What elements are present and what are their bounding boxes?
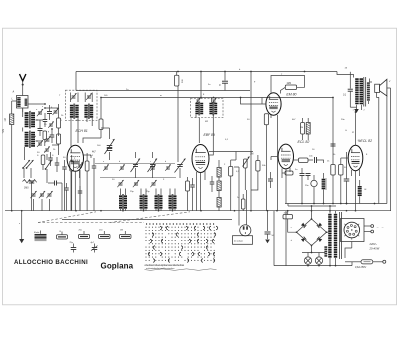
label R1	[4, 118, 7, 121]
coil L3 RF	[25, 131, 35, 149]
capacitor C20 trimmer	[117, 180, 123, 187]
wire coil taps	[23, 108, 38, 160]
wire HT rail	[288, 204, 336, 207]
connector J1 pickup	[240, 225, 251, 236]
capacitor C39	[55, 157, 60, 172]
svg-text:ALLOCCHIO BACCHINI: ALLOCCHIO BACCHINI	[14, 259, 88, 266]
coil L6 osc	[155, 194, 163, 210]
transformer IF1 shield	[66, 90, 98, 120]
capacitor C13 trimmer	[77, 162, 83, 211]
label small letters	[35, 106, 62, 138]
wire V3 cathode	[271, 115, 278, 211]
resistor R17	[282, 171, 293, 175]
label speaker	[388, 81, 391, 83]
capacitor CV3 tuning	[148, 152, 158, 178]
svg-text:1M: 1M	[250, 153, 253, 156]
coil L8	[322, 173, 326, 204]
band switch S1	[22, 160, 33, 169]
resistor R7 grid	[83, 98, 103, 144]
wire AVC bus	[100, 97, 333, 99]
wire box out	[28, 103, 59, 110]
svg-text:d: d	[165, 161, 166, 163]
loudspeaker LS1	[375, 79, 387, 96]
label anode A	[351, 131, 354, 134]
wire bridge top	[311, 206, 313, 219]
svg-text:½ECL 82: ½ECL 82	[358, 139, 373, 143]
capacitor C41	[64, 183, 69, 211]
resistor R21	[306, 118, 310, 140]
tube V5 ECL82 pentode	[348, 145, 363, 170]
capacitor C34	[43, 113, 48, 127]
svg-text:A: A	[12, 90, 15, 94]
resistor R9	[217, 160, 221, 177]
wire T1 leads	[353, 105, 366, 112]
wire screen feed	[346, 152, 348, 204]
tube V3 EM80	[266, 93, 281, 115]
transformer T1 core	[364, 77, 366, 107]
wire vertical right return	[390, 88, 392, 211]
resistor R5	[70, 155, 74, 211]
capacitor C21 trimmer	[133, 180, 139, 187]
label tone parts	[295, 161, 367, 192]
mechanical link dashed	[38, 212, 190, 223]
legend icon resistor a	[57, 231, 68, 239]
capacitor CV2 tuning	[131, 152, 141, 178]
wire gang link	[101, 128, 110, 132]
resistor R19	[339, 158, 343, 204]
socket X1 rectifier	[341, 219, 365, 242]
wire screen bus	[76, 72, 250, 91]
wire IF1 internal	[71, 93, 93, 103]
svg-text:220V~: 220V~	[369, 242, 378, 246]
rectifier bridge B1	[296, 218, 328, 246]
wire antenna to coil	[12, 101, 17, 108]
capacitor IF2 trimmers	[196, 98, 217, 104]
wire V5 anode	[355, 111, 357, 145]
label cathode parts	[63, 155, 94, 160]
label ECH 81	[76, 129, 88, 133]
wire vertical anode feed	[250, 72, 252, 211]
wire front-end links	[36, 107, 59, 145]
label mains text	[369, 242, 380, 251]
svg-text:g: g	[48, 131, 49, 133]
capacitor C35 trimmer	[48, 121, 54, 127]
svg-text:cdeohasnmtkeruioplkacstveniokc: cdeohasnmtkeruioplkacstveniokcdeohas	[145, 264, 185, 267]
coil IF2b	[209, 102, 217, 116]
svg-text:EM 80: EM 80	[286, 92, 296, 96]
wire EM80 column	[261, 98, 263, 105]
svg-text:25÷45W: 25÷45W	[369, 247, 380, 251]
resistor R24	[237, 194, 245, 211]
svg-text:→: →	[381, 225, 384, 229]
capacitor C27	[309, 156, 321, 164]
legend icon resistor b	[79, 230, 90, 239]
tube V1 ECH81	[67, 145, 83, 171]
resistor R1 antenna leak	[10, 108, 14, 211]
capacitor C31 across primary	[343, 68, 357, 108]
label near V1	[92, 152, 96, 154]
wire ground bus	[5, 210, 391, 212]
wire osc link	[100, 177, 176, 179]
capacitor C40	[331, 144, 336, 146]
capacitor C6 trimmer	[37, 140, 43, 147]
transformer T1 secondary	[367, 83, 370, 100]
capacitor C19 trimmer	[165, 164, 171, 170]
connector J1 box	[233, 236, 253, 245]
misc value labels	[30, 69, 368, 193]
component C23	[190, 178, 195, 211]
wire mid drops	[234, 167, 239, 190]
component C11	[48, 181, 62, 211]
capacitor C24	[210, 176, 215, 192]
svg-text:0,6A 250V: 0,6A 250V	[355, 266, 366, 269]
tube socket layout chart	[145, 223, 217, 262]
resistor R2	[57, 110, 61, 136]
svg-text:2M: 2M	[300, 127, 303, 129]
capacitor C9 trimmer	[39, 191, 45, 198]
svg-text:G: G	[345, 130, 347, 132]
capacitor C7	[29, 181, 35, 211]
svg-text:1M0: 1M0	[287, 83, 292, 85]
capacitor C33 filter	[265, 211, 275, 244]
label antenna	[12, 90, 15, 94]
lamp LP2	[315, 253, 322, 266]
capacitor C42	[78, 186, 83, 211]
capacitor C17 trimmer	[119, 164, 125, 170]
wire V2 pins	[197, 171, 206, 211]
wire switch bus	[62, 219, 232, 221]
label bridge marks	[291, 227, 293, 243]
capacitor C12	[62, 160, 67, 211]
capacitor CV4 tuning	[175, 86, 186, 178]
labels osc row	[103, 161, 166, 163]
wire cathode bus	[285, 203, 387, 205]
svg-text:→: →	[376, 225, 379, 229]
capacitor C25	[268, 172, 273, 188]
label EBF 89	[204, 133, 215, 137]
wire osc row top	[95, 163, 175, 165]
wire IF1 top feed	[75, 90, 77, 92]
wire V2 anode	[209, 140, 213, 155]
resistor R6	[85, 153, 89, 211]
label mid parts	[224, 153, 266, 174]
capacitor C5 trimmer	[45, 136, 51, 143]
transformer T2 primary	[328, 215, 337, 257]
chart caption	[145, 264, 217, 270]
svg-text:EBF 89: EBF 89	[204, 133, 215, 137]
svg-text:TVG: TVG	[3, 129, 5, 134]
legend icon resistor c	[99, 230, 111, 239]
wire bottom power bus	[274, 265, 352, 267]
resistor R4 AVC	[23, 180, 37, 190]
wire switch drops	[24, 168, 47, 178]
capacitor C37 trimmer	[44, 146, 50, 160]
legend icon trimmer b	[91, 242, 98, 252]
label Goplana	[101, 261, 134, 270]
capacitor C14	[92, 158, 97, 211]
transformer T1 primary	[355, 79, 363, 103]
label fuse	[355, 266, 366, 269]
svg-text:C: C	[219, 83, 221, 87]
coil IF1a	[70, 104, 79, 120]
resistor R20	[301, 118, 305, 140]
label L1	[12, 98, 14, 101]
label ALLOCCHIO BACCHINI	[14, 259, 88, 266]
wire speaker leads	[369, 79, 391, 204]
coil L9 speaker field	[358, 180, 362, 204]
capacitor C38	[48, 152, 53, 166]
capacitor C2	[47, 105, 52, 120]
wire dropper feeds	[274, 211, 286, 266]
lamp LP1	[304, 253, 311, 266]
ground GND2 legend	[19, 223, 21, 225]
resistor R15	[264, 114, 268, 211]
coil L2 RF	[25, 111, 35, 129]
band switch S2	[45, 161, 52, 170]
capacitor C30	[344, 171, 350, 204]
resistor R11	[217, 191, 221, 211]
wire V3 grid	[240, 97, 266, 104]
capacitor C18 trimmer	[150, 164, 156, 170]
resistor R10	[217, 177, 221, 191]
coil IF1b	[84, 104, 93, 120]
capacitor C16 trimmer	[103, 164, 109, 170]
potentiometer P1 volume	[243, 157, 250, 191]
wire IF2 to tube	[196, 98, 213, 144]
label values front end	[36, 107, 64, 153]
svg-text:A: A	[351, 131, 354, 134]
svg-text:d: d	[35, 136, 36, 138]
wire coupling	[321, 160, 324, 163]
legend icon resistor d	[120, 230, 132, 239]
resistor R23	[41, 155, 45, 170]
label lower left	[37, 149, 56, 154]
wire fuse to plug	[373, 260, 386, 263]
coil L7 osc	[169, 194, 177, 210]
capacitor C3 trimmer	[53, 108, 59, 115]
capacitor C28	[300, 168, 311, 204]
svg-text:ECH 81: ECH 81	[76, 129, 88, 133]
wire lamp rail	[302, 252, 325, 254]
wire vertical osc feed	[200, 72, 202, 98]
label AC arrows	[376, 225, 384, 229]
antenna	[20, 74, 26, 96]
wire right margin	[386, 96, 388, 204]
transformer T2 core	[340, 212, 342, 259]
svg-text:1M0: 1M0	[24, 188, 29, 190]
wire top HT bus	[76, 71, 354, 78]
label half ECL 82	[358, 139, 373, 143]
fuse F1	[345, 260, 373, 266]
svg-text:Elektr.: Elektr.	[34, 231, 40, 234]
terminal AC1	[371, 225, 374, 233]
wire V5 pins	[352, 170, 360, 211]
wire EBF89 anode load	[251, 176, 258, 190]
wire left column small	[46, 178, 48, 183]
capacitor C22 trimmer	[150, 180, 156, 187]
legend icon trimmer a	[70, 242, 77, 252]
svg-text:Goplana: Goplana	[101, 261, 134, 270]
svg-text:do adapt.: do adapt.	[234, 240, 244, 243]
tube V2 EBF89	[192, 145, 209, 173]
wire to J1	[239, 190, 247, 226]
transformer T2 secondary	[324, 247, 327, 256]
wire V5 grid	[341, 157, 348, 159]
capacitor C4	[38, 120, 43, 136]
capacitor C29 tone	[311, 175, 317, 204]
resistor R16 grid leak	[294, 158, 314, 162]
label TVG	[3, 129, 5, 134]
resistor R13	[256, 155, 260, 176]
capacitor C1 trimmer	[37, 109, 43, 116]
svg-text:1M: 1M	[120, 230, 123, 232]
wire bridge right	[327, 231, 329, 233]
ground GND1	[19, 211, 24, 244]
capacitor CV1 tuning	[105, 132, 115, 160]
wire trimmer drops	[34, 199, 50, 211]
wire pot to grid	[209, 152, 253, 191]
wire bridge bottom	[311, 246, 313, 253]
wire IF1 to tube	[71, 118, 92, 147]
coil L1 antenna	[17, 96, 29, 118]
coil L4 osc	[119, 194, 127, 210]
transformer IF2 shield	[191, 99, 224, 118]
capacitor C15 padder	[175, 72, 179, 87]
capacitor C32 filter	[283, 211, 297, 233]
wire screen drop	[332, 97, 334, 165]
label padder	[182, 79, 184, 83]
capacitor C10 trimmer	[46, 191, 52, 198]
ground T1 frame	[354, 108, 359, 114]
svg-text:ECL 82: ECL 82	[298, 140, 310, 144]
label ECL 82	[298, 140, 310, 144]
resistor R14 EM80	[271, 76, 305, 94]
resistor R18	[331, 165, 335, 204]
capacitor C26	[219, 72, 228, 91]
label EM 80	[286, 92, 296, 96]
wire V4 pins	[282, 168, 290, 204]
wire V4 grid	[271, 157, 278, 161]
resistor R22	[43, 131, 47, 146]
svg-text:c: c	[150, 161, 151, 163]
wire T2 leads	[330, 206, 336, 266]
capacitor C8 trimmer	[30, 191, 36, 198]
legend icon electrolytic	[34, 231, 47, 241]
wire V1 pins	[71, 155, 91, 211]
svg-text:1M: 1M	[4, 118, 7, 121]
component R8	[186, 177, 190, 211]
svg-text:ruskontvaleduciomplkrestruskon: ruskontvaleduciomplkrestruskon	[146, 267, 175, 270]
coil L5 osc	[140, 194, 148, 210]
capacitor C36	[50, 129, 55, 143]
coil IF2a	[195, 102, 203, 116]
resistor R12	[229, 160, 233, 211]
capacitor IF1 trimmers	[71, 93, 92, 100]
resistor R3	[57, 134, 61, 155]
svg-text:m: m	[160, 95, 162, 97]
wire osc coil leads	[121, 189, 176, 211]
tube V4 ECL82 triode	[278, 144, 293, 169]
wire socket leads	[345, 226, 371, 258]
